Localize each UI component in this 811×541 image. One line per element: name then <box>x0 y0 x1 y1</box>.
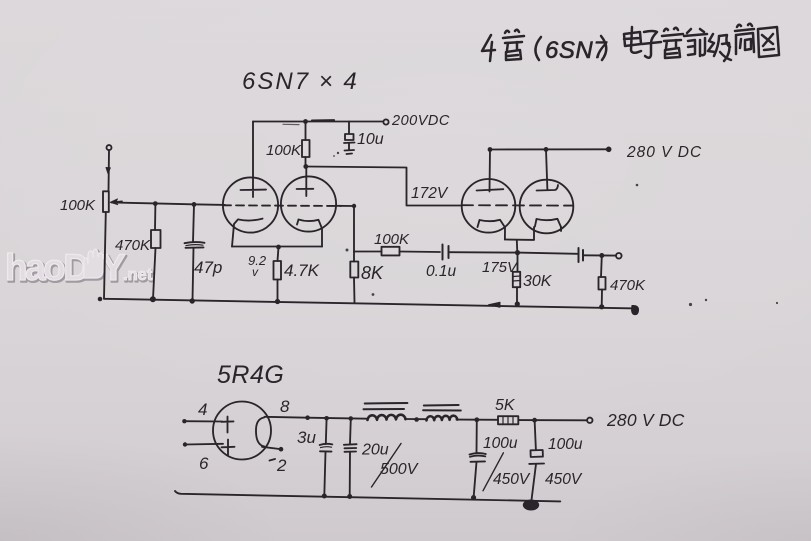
capacitor C1 47p <box>185 204 205 300</box>
capacitor C6 20u/500V <box>344 419 357 497</box>
arrow mark on rail <box>489 302 501 307</box>
junction dot rail left end <box>98 297 103 302</box>
junction dot 20u tap <box>349 416 354 421</box>
junction dot C1 bottom <box>190 298 195 303</box>
cathode bracket of V5 <box>256 418 265 447</box>
wire: wiper to grid of V1 <box>112 203 226 205</box>
svg-text:v: v <box>252 265 259 279</box>
svg-text:0.1u: 0.1u <box>426 263 457 280</box>
junction dot 175V node <box>515 250 520 255</box>
junction dot at 47p tap <box>192 202 197 207</box>
pin 8 wire <box>265 416 308 419</box>
junction dot supply rail under C7 <box>471 495 476 500</box>
svg-text:470K: 470K <box>115 237 151 254</box>
svg-text:30K: 30K <box>523 273 553 290</box>
wire between chokes <box>405 418 426 420</box>
svg-text:172V: 172V <box>411 185 449 202</box>
char （ <box>535 37 541 60</box>
capacitor C4 output (series) <box>579 248 584 262</box>
char 电 <box>624 27 641 53</box>
svg-text:5K: 5K <box>495 397 516 414</box>
junction dot R8 bottom <box>599 304 604 309</box>
plate of V2 with lead to plate node <box>297 167 314 197</box>
wire: bottom rail of supply <box>175 491 560 501</box>
wire: C4 to output terminal <box>583 254 616 256</box>
tube V5 rectifier envelope <box>213 402 271 460</box>
svg-text:280 V DC: 280 V DC <box>606 410 685 430</box>
terminal blob at rail right end <box>632 305 639 314</box>
tube V2 envelope (right circle of pair 1) <box>281 176 336 231</box>
junction dot C5 bottom <box>322 494 327 499</box>
resistor R7 30K (vertical hatched) <box>513 253 520 304</box>
junction dot pin8 <box>305 415 310 420</box>
arrow tick on input wire <box>106 168 110 174</box>
terminal blob C8 bottom <box>523 500 539 511</box>
svg-text:2: 2 <box>276 456 287 475</box>
capacitor C7 100u/450V <box>470 420 486 498</box>
svg-text:8: 8 <box>280 397 290 416</box>
capacitor C3 0.1u (series) <box>443 245 449 260</box>
wire: cathode bus of pair 1 <box>232 246 322 248</box>
wire: B+ rail of supply <box>308 418 367 419</box>
pin 6 wire and terminal <box>183 442 187 446</box>
junction dot 100u(a) tap <box>474 417 479 422</box>
wiper arrow of VR1 <box>112 201 122 202</box>
junction dot between chokes <box>414 417 419 422</box>
inductor L1 choke <box>364 403 408 420</box>
svg-text:450V: 450V <box>493 471 531 488</box>
char 4 <box>482 35 495 61</box>
wire: plate node to 172V corner then to grid of pair2 <box>306 167 463 206</box>
svg-text:100u: 100u <box>483 435 518 452</box>
resistor R2 470K (grid leak, vertical) <box>151 204 161 299</box>
junction dot output node <box>599 253 604 258</box>
plate of V1 with lead to rail <box>241 122 267 198</box>
overdraw strokes on top rail <box>312 119 334 122</box>
wire: grid of pair1 to 8K node <box>336 206 354 262</box>
svg-text:.net: .net <box>123 266 153 284</box>
label: pin 2 with tick <box>270 459 276 461</box>
terminal: input open circle <box>107 145 112 150</box>
svg-text:5R4G: 5R4G <box>217 361 284 389</box>
svg-text:47p: 47p <box>194 258 222 277</box>
tube V1 envelope (left circle of pair 1) <box>223 177 278 232</box>
junction dot below R1 <box>303 164 308 169</box>
cathode of V2 <box>297 220 322 247</box>
junction dot plate V3 <box>488 147 493 152</box>
svg-text:3u: 3u <box>297 428 316 447</box>
resistor R6 100K (horizontal) <box>354 247 440 256</box>
resistor R5 8K (vertical) <box>350 262 358 303</box>
junction dot C7 bottom <box>471 495 476 500</box>
cathode of V1 <box>232 219 263 247</box>
watermark haoDIY.net logo <box>5 247 154 289</box>
title: 4管（6SN7）电子管前级简图 (hand strokes) <box>482 24 779 64</box>
svg-text:200VDC: 200VDC <box>391 113 450 129</box>
junction dot at 470K tap <box>153 201 158 206</box>
svg-text:100K: 100K <box>60 197 96 214</box>
svg-text:20u: 20u <box>361 442 389 459</box>
grid dashes of V3/V4 <box>462 204 573 206</box>
junction dot plate V4 <box>544 147 549 152</box>
potentiometer VR1 100K input <box>103 145 122 298</box>
svg-text:6: 6 <box>199 454 209 473</box>
junction blob R2 bottom <box>150 296 156 302</box>
junction dot at grid corner <box>352 204 356 208</box>
capacitor C2 10u to ground <box>344 122 355 155</box>
wire: L2 to 5K <box>457 419 499 421</box>
char 图 <box>758 27 779 57</box>
junction dot on top rail <box>303 119 308 124</box>
junction dot 100u(b) tap <box>532 418 537 423</box>
char ） <box>601 36 606 60</box>
svg-text:100K: 100K <box>266 142 302 159</box>
wire: C3 to 175V node <box>449 251 518 253</box>
tube V3 envelope (left circle of pair 2) <box>462 179 516 233</box>
svg-text:280 V DC: 280 V DC <box>626 144 702 161</box>
junction dot R7 bottom <box>515 301 520 306</box>
wire: 200VDC top rail <box>253 121 383 123</box>
slash and 450V for C7 <box>483 453 503 491</box>
svg-text:haoD: haoD <box>5 247 89 288</box>
resistor R1 100K (plate load, vertical) <box>302 122 310 167</box>
pin 4 wire and terminal <box>182 419 186 423</box>
cathode of V3 <box>478 220 506 240</box>
wire: 280V rail top <box>490 148 609 150</box>
terminal: 200VDC open circle <box>383 119 388 124</box>
char 子 <box>642 31 661 58</box>
plate of V4 <box>537 149 558 190</box>
junction dot 3u tap <box>324 416 329 421</box>
char 级 <box>708 34 731 61</box>
svg-text:100u: 100u <box>548 436 583 453</box>
wire: 5K to 280V terminal <box>518 419 586 421</box>
junction dot C6 bottom <box>347 494 352 499</box>
svg-text:500V: 500V <box>380 461 419 478</box>
resistor R4 4.7K (cathode, vertical) <box>274 261 282 301</box>
plate of V3 <box>477 150 504 192</box>
inductor L2 choke <box>423 405 461 420</box>
svg-text:100K: 100K <box>374 231 410 248</box>
terminal: output open circle <box>616 253 622 259</box>
junction dot R4 bottom <box>275 299 280 304</box>
ground for C2 <box>345 149 355 152</box>
svg-text:10u: 10u <box>357 131 384 148</box>
char 简 <box>735 24 754 54</box>
cathode of V4 <box>534 219 561 240</box>
svg-text:4: 4 <box>198 400 207 419</box>
svg-text:470K: 470K <box>610 277 646 294</box>
stray ink specks <box>333 152 778 306</box>
resistor R9 5K (horizontal hatched) <box>498 416 518 424</box>
terminal: 280V bottom open circle <box>587 418 592 423</box>
wire: cathode bus down to R4 <box>278 247 279 261</box>
char 管 <box>503 30 524 60</box>
capacitor C8 100u/450V <box>529 420 544 500</box>
tube V4 envelope (right circle of pair 2) <box>520 180 574 234</box>
pin 2 wire and terminal <box>262 447 280 449</box>
filament of V5 (two crosses) <box>222 417 234 433</box>
svg-text:6SN7 × 4: 6SN7 × 4 <box>242 68 359 95</box>
char 管 <box>662 28 683 58</box>
svg-text:8K: 8K <box>361 263 384 283</box>
wire: bottom rail of top circuit <box>104 299 637 309</box>
terminal: 280V solid dot <box>606 147 612 153</box>
svg-text:6SN7: 6SN7 <box>545 37 608 64</box>
wire: cathode bus of pair 2 <box>505 227 561 240</box>
char 前 <box>684 29 707 56</box>
svg-text:4.7K: 4.7K <box>284 261 320 280</box>
grid dashes of V1/V2 <box>223 204 341 207</box>
resistor R8 470K (output, vertical) <box>599 256 606 307</box>
capacitor C5 3u <box>320 418 333 496</box>
svg-text:450V: 450V <box>545 471 583 488</box>
wire: 175V node to output cap <box>518 253 578 254</box>
